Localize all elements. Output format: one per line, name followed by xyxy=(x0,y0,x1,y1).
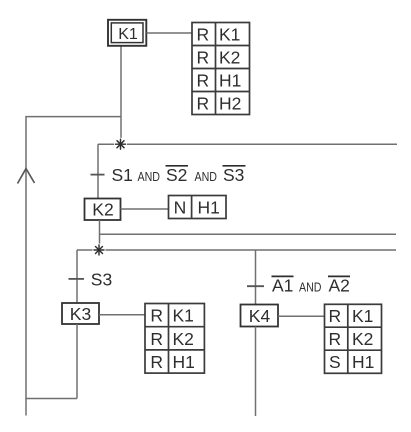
svg-text:K2: K2 xyxy=(352,329,373,349)
svg-text:AND: AND xyxy=(138,169,161,184)
action table of K4: R K1 / R K2 / S H1 xyxy=(325,304,382,373)
wire K1 to action table xyxy=(147,32,193,34)
wire K1 drop to junction xyxy=(120,46,122,144)
svg-text:S1: S1 xyxy=(112,165,133,185)
node junction asterisk 1 xyxy=(114,138,127,151)
svg-text:K2: K2 xyxy=(92,200,113,220)
svg-text:R: R xyxy=(196,93,209,113)
svg-text:S3: S3 xyxy=(91,269,112,289)
wire K3 drop to bottom return xyxy=(76,324,78,399)
svg-text:R: R xyxy=(328,306,341,326)
svg-text:K1: K1 xyxy=(219,24,240,44)
wire K2 drop to junction 2 xyxy=(99,220,101,250)
transition label /A1 AND /A2 xyxy=(272,276,351,296)
node junction asterisk 2 xyxy=(93,244,106,257)
svg-text:K2: K2 xyxy=(173,329,194,349)
wire horizontal divergence line 2 (OR branch K3/K4) xyxy=(77,249,396,251)
svg-text:AND: AND xyxy=(299,280,322,295)
action table of K1: R K1 / R K2 / R H1 / R H2 xyxy=(192,23,250,115)
svg-text:AND: AND xyxy=(195,169,218,184)
svg-text:K3: K3 xyxy=(70,304,91,324)
wire branch down to transition A1 A2 xyxy=(255,250,257,305)
svg-text:N: N xyxy=(174,197,187,217)
svg-text:K1: K1 xyxy=(173,306,194,326)
transition label S1 AND /S2 AND /S3 xyxy=(112,165,246,185)
svg-text:S2: S2 xyxy=(166,165,187,185)
svg-text:K2: K2 xyxy=(219,47,240,67)
transition tick S1 AND /S2 AND /S3 xyxy=(91,174,105,176)
wire vertical branch to transition S1 xyxy=(97,144,99,198)
svg-text:R: R xyxy=(150,352,163,372)
svg-text:H1: H1 xyxy=(219,70,241,90)
svg-text:R: R xyxy=(196,70,209,90)
wire K4 to action table xyxy=(278,315,325,317)
step K2 xyxy=(85,199,121,221)
wire return loop (from K3 back up to K1 line) xyxy=(26,117,121,399)
step K4 xyxy=(241,305,279,327)
transition tick /A1 AND /A2 xyxy=(247,285,264,287)
svg-text:K4: K4 xyxy=(249,306,271,326)
svg-text:H1: H1 xyxy=(173,352,195,372)
wire horizontal line 1 after K2 xyxy=(100,233,397,235)
svg-text:R: R xyxy=(196,47,209,67)
svg-text:R: R xyxy=(150,329,163,349)
wire branch down to transition S3 xyxy=(76,250,78,303)
svg-text:A1: A1 xyxy=(272,276,293,296)
svg-text:S3: S3 xyxy=(223,165,244,185)
svg-text:H1: H1 xyxy=(352,352,374,372)
step K3 xyxy=(62,303,99,324)
action table of K2: N H1 xyxy=(169,196,227,219)
svg-text:R: R xyxy=(196,24,209,44)
svg-text:H2: H2 xyxy=(219,93,241,113)
action table of K3: R K1 / R K2 / R H1 xyxy=(145,304,204,374)
svg-text:H1: H1 xyxy=(198,197,220,217)
svg-text:R: R xyxy=(150,306,163,326)
svg-text:A2: A2 xyxy=(329,276,350,296)
svg-text:R: R xyxy=(328,329,341,349)
svg-text:S: S xyxy=(329,352,341,372)
wire K3 to action table xyxy=(99,314,145,316)
transition tick S3 xyxy=(69,278,85,280)
wire K4 drop (continuation) xyxy=(255,327,257,417)
wire return stub below corner xyxy=(25,399,27,416)
svg-text:K1: K1 xyxy=(352,306,373,326)
wire horizontal divergence line after K1 xyxy=(98,143,397,145)
step K1 (initial step, double border) xyxy=(108,20,146,46)
arrowhead up on return line xyxy=(18,169,35,184)
wire K2 to action table N H1 xyxy=(121,208,169,210)
svg-text:K1: K1 xyxy=(118,26,138,43)
